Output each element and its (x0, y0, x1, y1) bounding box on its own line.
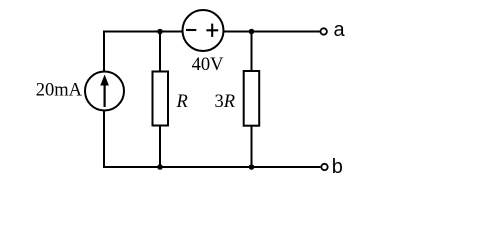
voltage source V1 (183, 10, 224, 51)
svg-text:R: R (176, 92, 188, 112)
svg-text:20mA: 20mA (36, 81, 83, 101)
wire bottom horizontal (103, 166, 320, 168)
svg-text:3R: 3R (215, 92, 236, 112)
resistor R (153, 72, 169, 126)
resistor 3R (244, 71, 260, 126)
svg-text:b: b (332, 156, 343, 178)
wire left vertical (103, 31, 105, 168)
terminal a (321, 28, 327, 34)
wire resistor 3R branch (251, 32, 253, 168)
svg-text:40V: 40V (192, 55, 225, 75)
junction bottom 3R (249, 164, 255, 170)
junction bottom R (157, 164, 163, 170)
current source I1 (85, 72, 124, 111)
junction top R (157, 29, 163, 35)
wire resistor R branch (159, 32, 161, 168)
wire top horizontal (103, 31, 320, 33)
junction top 3R (249, 29, 255, 35)
terminal b (321, 164, 327, 170)
svg-text:a: a (334, 19, 346, 41)
